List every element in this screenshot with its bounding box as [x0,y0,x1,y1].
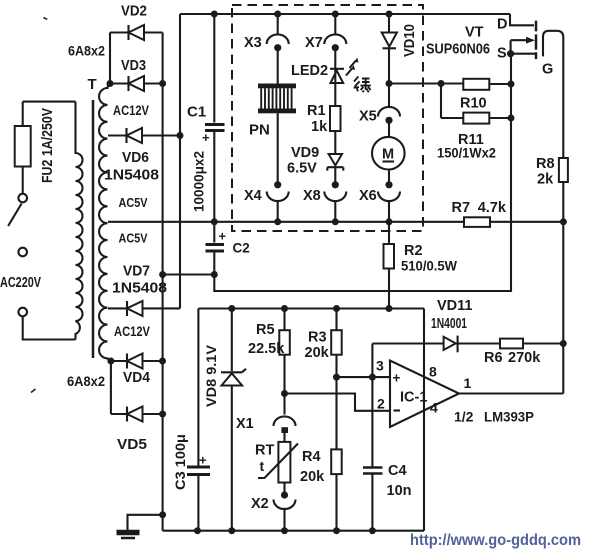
resistor R7 [464,217,490,227]
connector X4 arc [267,192,289,202]
wire R11 right [489,117,511,119]
svg-text:R4: R4 [302,449,321,465]
connector X6 arc [378,192,400,202]
svg-text:VD10: VD10 [402,24,418,57]
wire VD11/R6 feedback [372,342,563,344]
svg-text:X4: X4 [244,188,262,204]
node VD10 output [386,80,393,87]
zener VD8 [221,369,246,373]
svg-text:FU2 1A/250V: FU2 1A/250V [40,108,56,183]
svg-text:6A8x2: 6A8x2 [67,373,105,389]
dashed box [232,5,423,231]
wire C1 column upper [213,14,215,123]
node C4 pin3 junction [369,374,376,381]
node rail X6 [386,218,393,225]
wire R3/R4 column [335,309,337,531]
node R11 right [508,115,515,122]
wire VD4 row [111,360,163,362]
node: VD2/VD3 left junction [107,80,114,87]
diode VD6 [125,128,127,143]
node mid rail C1C2 [211,218,218,225]
node R10 left [438,80,445,87]
diode VD7 [126,301,128,316]
node bus1 to C2 wire [159,271,166,278]
svg-text:X6: X6 [359,188,377,204]
transformer core [92,100,95,358]
resistor R11 [463,113,489,124]
stray tick left of 6A8x2 [31,389,36,393]
svg-text:C3 100μ: C3 100μ [172,434,188,490]
transformer secondary winding [99,84,111,361]
stray speck top-left [44,18,48,20]
node X2 pin [281,491,288,498]
node top rail C1 [211,11,218,18]
node rail X8 [332,218,339,225]
svg-text:1k: 1k [311,119,328,135]
wire pin2 zigzag [285,394,391,411]
svg-text:+: + [199,453,207,468]
connector X7 arc [324,34,346,44]
svg-text:4: 4 [430,400,438,416]
svg-text:AC12V: AC12V [113,102,150,118]
body arrow [526,37,535,44]
diode VD5 [126,407,128,422]
svg-text:4.7k: 4.7k [478,200,507,216]
svg-text:10n: 10n [387,483,412,499]
svg-text:VD2: VD2 [121,4,147,20]
wire: mid rail AC5V center tap [108,221,564,223]
wire R1 to VD9 [334,131,336,154]
svg-text:AC5V: AC5V [119,232,149,246]
wire C1 bottom to rail and C2 [213,132,215,243]
svg-text:LED2: LED2 [291,63,328,79]
node R2 into box rail [386,305,393,312]
svg-text:R8: R8 [536,156,555,172]
switch contact circle 2 [18,248,27,257]
wire ground stem [128,515,163,530]
connector X8 arc [324,192,346,202]
svg-text:http://www.go-gddq.com: http://www.go-gddq.com [410,532,581,549]
wire VD10 top [388,14,390,33]
wire VD7 row [108,307,180,309]
svg-text:t: t [260,458,265,474]
wire VD5 row [111,413,163,415]
node 274 junction [211,271,218,278]
svg-text:+: + [219,229,227,244]
node C4 rail bottom [369,527,376,534]
svg-text:PN: PN [249,122,270,139]
fuse FU2 [15,126,31,167]
svg-text:VD11: VD11 [437,298,472,314]
wire: fuse top to primary top [23,101,76,103]
wire X3 column top [277,14,279,35]
svg-text:22.5k: 22.5k [248,341,285,357]
svg-text:LM393P: LM393P [484,409,534,425]
wire VD4-VD5 left vertical [110,361,112,414]
svg-text:+: + [202,130,210,145]
wire motor to X6 [388,170,390,185]
label minus input [394,409,401,411]
svg-text:D: D [497,17,507,33]
label green char [354,77,371,93]
wire R5 column [283,309,285,531]
node VD8 top [228,305,235,312]
svg-text:M: M [382,147,394,163]
svg-text:270k: 270k [508,350,541,366]
svg-text:X5: X5 [359,109,377,125]
svg-text:R10: R10 [460,96,487,112]
svg-text:S: S [497,46,507,62]
wire X3 to PN [277,48,279,84]
wire X7 column top [334,14,336,35]
resistor R10 [463,79,489,90]
diode VD3 [127,76,129,91]
node R5 bottom / pin2 tap [281,390,288,397]
svg-text:X2: X2 [251,496,269,512]
svg-text:X7: X7 [305,35,323,51]
switch contact circle 1 [18,194,27,203]
node VD6 output [177,132,184,139]
wire source+body leads [511,40,535,54]
resistor R3 [331,330,342,355]
svg-text:VT: VT [465,25,484,41]
wire X7 to LED2 [334,48,336,69]
svg-text:R1: R1 [307,103,326,119]
thermo block PN [258,84,296,114]
svg-text:AC12V: AC12V [114,323,151,339]
resistor R1 [330,106,341,131]
wire C3 column [197,309,199,531]
connector X5 arc [378,107,400,117]
wire: top positive rail [180,13,510,15]
svg-text:VD9: VD9 [291,145,319,161]
svg-text:X8: X8 [303,188,321,204]
svg-text:1N5408: 1N5408 [104,168,159,184]
node R3 top [333,305,340,312]
node top rail VD10 [386,11,393,18]
svg-text:R5: R5 [256,322,275,338]
svg-text:510/0.5W: 510/0.5W [401,258,458,274]
svg-text:1: 1 [464,375,472,391]
wire: fuse column top [22,102,24,126]
svg-text:20k: 20k [300,469,325,485]
svg-text:8: 8 [429,364,437,380]
node R5 top [281,305,288,312]
svg-text:VD8 9.1V: VD8 9.1V [203,344,219,407]
wire ground rail [163,530,424,532]
wire R8 column down [562,182,564,394]
svg-text:6.5V: 6.5V [287,161,317,177]
node VD5 right [159,411,166,418]
node R4 rail bottom [333,527,340,534]
svg-text:2k: 2k [537,172,554,188]
wire drain lead [510,14,534,25]
wire C4 column / VD11 riser [371,344,373,531]
resistor R2 [384,244,395,269]
svg-text:X1: X1 [236,416,254,432]
connector X1 arc [274,416,296,426]
svg-text:10000μx2: 10000μx2 [191,151,207,212]
node VD8 bottom [228,527,235,534]
wire box top rail [198,307,424,309]
wire X6 to rail [388,201,390,222]
LED2 arrows [346,61,356,76]
capacitor C1 [205,123,225,126]
LED LED2 [330,68,344,70]
svg-text:G: G [542,62,553,78]
svg-text:C4: C4 [388,463,407,479]
wire 274 crosslink [163,273,215,275]
svg-text:T: T [88,76,97,93]
capacitor C3 [187,466,210,469]
svg-text:150/1Wx2: 150/1Wx2 [437,145,496,161]
node VD4 left [107,358,114,365]
wire output pin1 [459,392,563,394]
wire: bottom of primary loop [23,317,76,340]
mosfet channel segments [535,21,538,60]
svg-text:SUP60N06: SUP60N06 [426,42,490,58]
wire VD2 row [110,31,163,33]
svg-text:1/2: 1/2 [454,409,474,425]
node R8/R7 [560,218,567,225]
wire VD6 row [108,134,180,136]
wire PN to X4 [277,113,279,185]
node top rail X3 [274,11,281,18]
wire R10 right [489,83,511,85]
diode VD2 [127,25,129,40]
wire VD9 to X8 [334,167,336,185]
svg-text:2: 2 [377,396,385,412]
node R5 rail bottom [281,527,288,534]
thermistor RT [278,442,290,483]
node X6 pin [385,181,392,188]
svg-text:6A8x2: 6A8x2 [68,43,105,59]
wire: VD2 left vertical [109,33,111,84]
connector X3 arc [267,34,289,44]
svg-text:1N4001: 1N4001 [431,316,467,332]
node X3 pin [274,44,281,51]
wire LED2 to R1 [334,69,336,106]
svg-text:C1: C1 [187,104,206,121]
capacitor C2 [206,243,225,246]
wire bus VD2345 (x=162.6) [162,33,164,531]
svg-text:20k: 20k [305,345,330,361]
resistor R5 [279,330,290,355]
svg-text:AC5V: AC5V [119,196,149,210]
svg-text:VD5: VD5 [117,437,147,453]
svg-text:R6: R6 [484,350,503,366]
ground symbol [117,530,140,536]
wire X5 to motor [388,120,390,137]
svg-text:IC-1: IC-1 [400,390,427,406]
node X5 pin [385,117,392,124]
gate electrode and stem [543,31,563,158]
node R3 bottom pin3 [333,374,340,381]
svg-text:1N5408: 1N5408 [112,281,167,297]
motor M [372,137,405,170]
connector X2 arc [274,500,296,510]
svg-text:AC220V: AC220V [0,275,41,291]
node VD4 right [159,358,166,365]
op-amp IC-1 triangle [390,361,459,428]
node R6 right [560,340,567,347]
node X7 pin [332,44,339,51]
node: VD3 right junction [159,80,166,87]
svg-text:+: + [393,371,401,386]
AC terminal circle 3 [18,308,27,317]
node ground stem junction [159,511,166,518]
node top rail X7 [332,11,339,18]
resistor R6 [500,339,523,349]
diode VD11 [444,337,456,350]
wire C2 bottom corner to S riser [214,54,511,291]
node S [507,50,514,57]
svg-text:VD3: VD3 [121,58,146,74]
wire R10/R11 left link [389,84,463,119]
wire VD3 row [110,82,163,84]
connector X1 pin square [281,427,288,433]
node rail X4 [274,218,281,225]
wire pin3 [337,376,391,378]
resistor R8 [559,158,568,182]
node X4 pin [274,181,281,188]
wire VD8 column [231,309,233,531]
svg-text:RT: RT [255,443,274,459]
diode VD4 [126,354,128,369]
diode VD10 [382,33,397,47]
svg-text:C2: C2 [233,241,250,256]
svg-text:VD7: VD7 [123,264,150,280]
svg-text:3: 3 [376,358,384,374]
wire VD10 to X5 [388,48,390,107]
svg-text:R3: R3 [308,330,327,346]
node box rail corners/junctions [194,527,201,534]
svg-text:X3: X3 [244,35,262,51]
svg-text:VD6: VD6 [122,150,149,166]
wire X4 to rail [277,201,279,222]
transformer T primary winding [76,102,83,340]
svg-text:R7: R7 [452,200,471,216]
wire R2 column [388,222,390,309]
resistor R4 [331,449,342,474]
capacitor C4 [363,466,383,469]
wire box right edge pin8/pin4 [423,309,425,531]
wire X8 to rail [334,201,336,222]
node R10 right [508,81,515,88]
zener VD9 [329,154,342,165]
wire bus VD6/VD7 (x=180) top rail riser [179,14,181,308]
node X8 pin [332,181,339,188]
svg-text:VD4: VD4 [123,370,150,386]
switch lever [8,204,22,227]
